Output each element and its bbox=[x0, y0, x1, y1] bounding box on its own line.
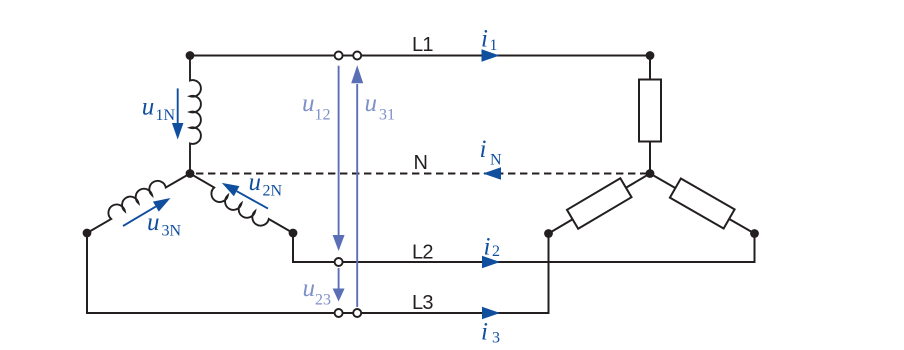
resistor R3 (diagonal, load phase 2) bbox=[670, 179, 735, 229]
wire load arm right bbox=[650, 174, 755, 234]
svg-text:i: i bbox=[481, 319, 488, 346]
arrowhead current i1 bbox=[482, 49, 500, 62]
svg-text:u: u bbox=[142, 94, 155, 121]
node: load top bbox=[646, 51, 655, 60]
svg-text:L1: L1 bbox=[412, 34, 433, 56]
voltage arrow line u2N bbox=[237, 191, 268, 208]
svg-text:2N: 2N bbox=[263, 183, 283, 200]
svg-text:12: 12 bbox=[315, 107, 331, 124]
voltage line u31 bbox=[356, 84, 358, 307]
voltage line u12 bbox=[338, 66, 340, 236]
svg-text:i: i bbox=[481, 26, 488, 53]
svg-text:N: N bbox=[490, 151, 502, 168]
svg-text:u: u bbox=[249, 169, 262, 196]
svg-text:u: u bbox=[302, 90, 315, 117]
wire L1 bbox=[190, 55, 650, 57]
arrowhead u1N (down) bbox=[172, 123, 184, 140]
node: load star point bbox=[646, 169, 655, 178]
svg-text:N: N bbox=[414, 152, 428, 174]
terminal circle L1-a bbox=[335, 52, 343, 60]
arrowhead current i3 bbox=[482, 307, 500, 320]
svg-text:i: i bbox=[484, 234, 491, 261]
node: source lower-right bbox=[289, 229, 298, 238]
voltage line u23 bbox=[338, 268, 340, 290]
wire L2 bbox=[293, 233, 755, 262]
wire N (dashed) bbox=[190, 173, 650, 175]
wire load arm vertical bbox=[649, 56, 651, 174]
svg-text:3: 3 bbox=[492, 330, 500, 347]
arrowhead u12 (down) bbox=[333, 235, 345, 251]
terminal circle L1-b bbox=[353, 52, 361, 60]
svg-text:L3: L3 bbox=[412, 292, 433, 314]
terminal circle L2 bbox=[335, 258, 343, 266]
node: source star point bbox=[186, 169, 195, 178]
svg-text:L2: L2 bbox=[412, 241, 433, 263]
svg-text:1N: 1N bbox=[156, 107, 176, 124]
resistor R1 (vertical, load phase 1) bbox=[639, 80, 661, 142]
arrowhead u23 (down) bbox=[333, 289, 345, 302]
terminal circle L3-b bbox=[353, 309, 361, 317]
arrowhead u3N (up-right) bbox=[153, 193, 173, 212]
svg-text:u: u bbox=[365, 90, 378, 117]
svg-text:2: 2 bbox=[492, 243, 500, 260]
resistor R2 (diagonal, load phase 3) bbox=[567, 178, 632, 228]
node: source top bbox=[186, 51, 195, 60]
svg-text:3N: 3N bbox=[162, 222, 182, 239]
inductor winding L2N (lower-right coil) bbox=[185, 174, 294, 243]
svg-text:i: i bbox=[480, 136, 487, 163]
arrowhead u2N (up-left) bbox=[219, 178, 239, 196]
svg-text:23: 23 bbox=[315, 291, 331, 308]
terminal circle L3-a bbox=[335, 309, 343, 317]
svg-text:u: u bbox=[303, 275, 316, 302]
inductor winding L3N (lower-left coil) bbox=[82, 164, 191, 233]
node: source lower-left bbox=[83, 229, 92, 238]
svg-text:u: u bbox=[147, 209, 160, 236]
node: load lower-right bbox=[750, 229, 759, 238]
svg-text:31: 31 bbox=[379, 107, 395, 124]
arrowhead u31 (up) bbox=[351, 65, 363, 83]
wire load arm left bbox=[549, 174, 651, 234]
inductor winding L1N (vertical coil) bbox=[190, 56, 201, 174]
voltage arrow line u3N bbox=[123, 207, 156, 226]
svg-text:1: 1 bbox=[490, 37, 498, 54]
voltage arrow line u1N bbox=[177, 88, 179, 124]
wire L3 bbox=[87, 233, 549, 313]
arrowhead current i2 bbox=[482, 256, 500, 269]
arrowhead current iN (left) bbox=[483, 167, 501, 180]
node: load lower-left bbox=[544, 229, 553, 238]
